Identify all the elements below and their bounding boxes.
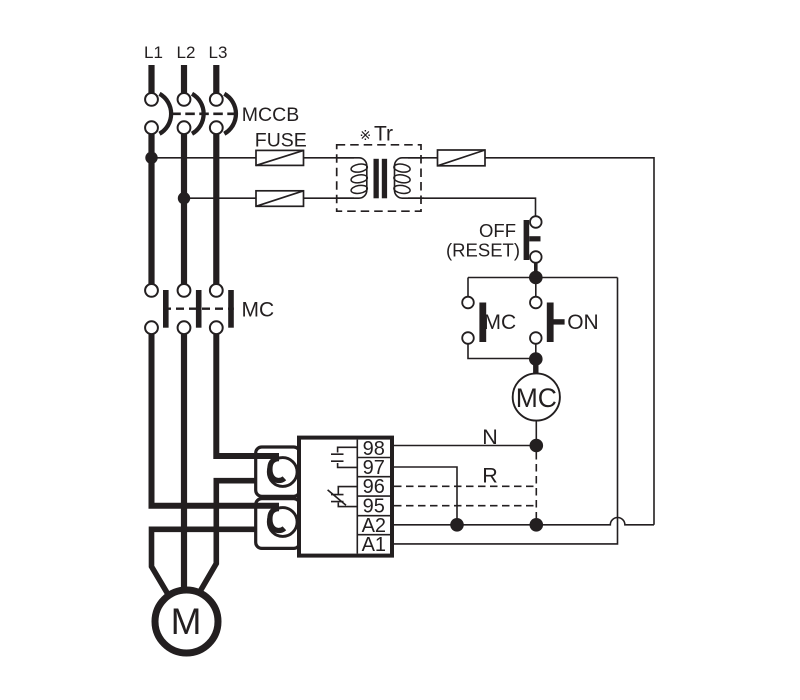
svg-text:(RESET): (RESET) [446, 239, 520, 260]
contactor MC main pole 1 bottom terminal [145, 321, 158, 334]
wire transformer secondary top to fuse 3 [408, 157, 438, 159]
relay OCR cell divider 98/97 [357, 457, 391, 459]
transformer Tr primary coil loop 1 [350, 163, 367, 173]
node junction dot below OFF [529, 271, 543, 285]
breaker MCCB pole 1 arc [160, 94, 172, 134]
fuse F3 diagonal [438, 150, 486, 166]
relay OCR current coil box 1 [256, 447, 300, 496]
relay OCR heater CT2 circle [268, 508, 297, 537]
wire CT1 exit down to motor [200, 481, 257, 592]
wire fuse 1 to transformer primary top [304, 157, 355, 159]
pushbutton ON actuator bar [547, 303, 554, 343]
wire OFF button to junction [534, 263, 538, 273]
node junction dot N [530, 439, 544, 453]
contactor MC main pole 2 bar [196, 290, 202, 328]
wire L3 MCCB to MC contact [213, 134, 219, 284]
wire L3 supply drop [213, 65, 219, 93]
transformer Tr dashed enclosure [337, 145, 421, 211]
pushbutton OFF bottom terminal [530, 251, 542, 263]
svg-text:N: N [482, 425, 498, 449]
transformer Tr core bar 1 [374, 159, 379, 199]
breaker MCCB pole 2 arc [192, 94, 204, 134]
transformer Tr core bar 2 [382, 159, 387, 199]
breaker MCCB pole 1 bottom terminal [145, 121, 158, 134]
transformer Tr primary coil loop 3 [350, 184, 367, 194]
wire transformer secondary bottom to OFF button [408, 198, 536, 216]
wire MC aux bottom to lower rung [468, 344, 531, 359]
contact MC aux top terminal [462, 297, 474, 309]
svg-text:MC: MC [242, 299, 275, 322]
svg-text:L3: L3 [209, 43, 228, 62]
relay OCR heater CT1 circle [268, 458, 297, 487]
wire CT2 exit down to motor [152, 529, 258, 593]
contactor MC main pole 2 bottom terminal [178, 321, 191, 334]
contactor MC main pole 2 top terminal [178, 284, 191, 297]
contactor MC main pole 3 bottom terminal [210, 321, 223, 334]
wire junction 2 to MC coil [533, 359, 538, 374]
svg-text:M: M [171, 601, 202, 642]
node junction dot 97-A2 [450, 518, 464, 532]
svg-text:FUSE: FUSE [255, 129, 307, 151]
fuse F1 body [256, 150, 304, 165]
contactor MC main pole 1 bar [163, 290, 169, 328]
pushbutton OFF actuator bar [524, 220, 530, 260]
wire L2 MCCB to MC contact [181, 134, 187, 284]
svg-text:MCCB: MCCB [242, 104, 299, 126]
coil MC body [513, 373, 560, 420]
pushbutton OFF top terminal [530, 216, 542, 228]
svg-text:※: ※ [360, 127, 372, 143]
node junction dot A2 dashed tap [530, 518, 544, 532]
contact MC aux bar [479, 303, 486, 343]
node junction dot L2 control tap [178, 192, 190, 204]
wire junction to ON button [535, 283, 537, 297]
node junction dot L1 control tap [145, 152, 157, 164]
wire L3 into CT1 [216, 334, 279, 456]
breaker MCCB pole 2 top terminal [178, 93, 191, 106]
node junction dot above MC coil [529, 352, 543, 366]
transformer Tr secondary coil loop 2 [393, 174, 410, 184]
wire left branch drop to MC aux contact [467, 278, 469, 297]
wire L2 straight to motor [181, 334, 187, 590]
contactor MC main linkage dashed [163, 308, 234, 310]
wire L2 tap to fuse 2 [184, 197, 256, 199]
fuse F2 body [256, 191, 304, 207]
transformer Tr primary coil loop 2 [350, 174, 367, 184]
relay OCR heater CT1 wire curl [270, 459, 285, 481]
relay OCR NO contact 98-97 [331, 447, 357, 467]
relay OCR NC contact 96-95 [328, 487, 357, 507]
relay OCR heater CT2 wire curl [270, 509, 285, 531]
wire terminal 95 dashed R option [394, 505, 536, 507]
wire L1 supply drop [148, 65, 154, 93]
relay OCR terminal column divider [356, 440, 358, 554]
transformer Tr secondary coil loop 3 [393, 184, 410, 194]
svg-text:L1: L1 [144, 43, 163, 62]
wire MC coil to N node [535, 421, 537, 446]
svg-text:A1: A1 [362, 534, 386, 556]
wire L1 into CT2 [152, 334, 280, 506]
svg-text:L2: L2 [177, 43, 196, 62]
breaker MCCB pole 3 top terminal [210, 93, 223, 106]
svg-text:ON: ON [567, 311, 599, 334]
relay OCR main body [299, 438, 392, 556]
relay OCR cell divider 97/96 [357, 476, 391, 478]
wire L2 supply drop [181, 65, 187, 93]
contactor MC main pole 3 top terminal [210, 284, 223, 297]
wire fuse 2 to transformer primary bottom [304, 197, 355, 199]
motor M body [155, 590, 218, 653]
wire dashed vertical N to A2 [535, 452, 537, 518]
breaker MCCB pole 3 arc [224, 94, 236, 134]
svg-text:Tr: Tr [374, 122, 393, 145]
fuse F3 body [438, 150, 486, 166]
svg-text:R: R [482, 464, 498, 488]
svg-text:MC: MC [484, 311, 517, 334]
transformer Tr secondary coil loop 1 [393, 163, 410, 173]
pushbutton OFF contact stub [529, 236, 540, 241]
pushbutton ON bottom terminal [530, 332, 542, 344]
svg-text:MC: MC [516, 383, 557, 413]
wire L1 MCCB to MC contact [148, 134, 154, 284]
wire ON bottom to junction 2 [535, 344, 537, 354]
relay OCR current coil box 2 [256, 499, 300, 549]
fuse F1 diagonal [256, 150, 304, 165]
breaker MCCB linkage dashed [171, 113, 236, 116]
pushbutton ON contact stub [553, 319, 564, 324]
svg-text:OFF: OFF [479, 220, 516, 241]
wire terminal A2 line [394, 517, 654, 524]
wire L1 tap to fuse 1 [152, 157, 257, 159]
fuse F2 diagonal [256, 191, 304, 207]
wire A1 riser [394, 278, 618, 544]
breaker MCCB pole 3 bottom terminal [210, 121, 223, 134]
breaker MCCB pole 2 bottom terminal [178, 121, 191, 134]
relay OCR cell divider A2/A1 [357, 534, 391, 536]
transformer Tr secondary winding frame [395, 158, 425, 198]
pushbutton ON top terminal [530, 297, 542, 309]
contactor MC main pole 1 top terminal [145, 284, 158, 297]
wire fuse 3 to right rail [485, 158, 654, 525]
wire terminal 97 jumper to A2 line [394, 467, 457, 525]
wire terminal 98 to N node [394, 445, 536, 447]
breaker MCCB pole 1 top terminal [145, 93, 158, 106]
transformer Tr primary winding frame [337, 158, 367, 198]
relay OCR cell divider 95/A2 [357, 515, 391, 517]
relay OCR cell divider 96/95 [357, 495, 391, 497]
contactor MC main pole 3 bar [228, 290, 234, 328]
wire terminal 96 dashed R option [394, 485, 536, 487]
wire control rung top [468, 277, 618, 279]
contact MC aux bottom terminal [462, 332, 474, 344]
